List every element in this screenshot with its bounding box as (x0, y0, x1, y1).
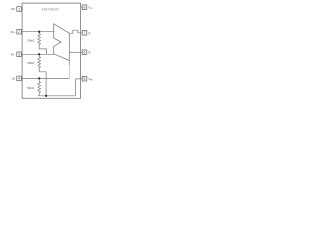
svg-text:Q: Q (88, 31, 91, 35)
svg-text:Q̅: Q̅ (88, 50, 91, 54)
svg-text:IN−: IN− (11, 53, 16, 57)
svg-text:2: 2 (18, 30, 20, 34)
svg-text:7: 7 (84, 31, 86, 35)
svg-text:VEE: VEE (88, 77, 93, 81)
svg-text:50kΩ: 50kΩ (27, 61, 35, 65)
svg-text:4: 4 (18, 77, 20, 81)
svg-text:50kΩ: 50kΩ (27, 39, 35, 43)
svg-text:3: 3 (18, 53, 20, 57)
svg-text:1: 1 (18, 7, 20, 11)
svg-text:LE: LE (12, 77, 16, 81)
svg-text:5: 5 (84, 77, 86, 81)
svg-text:VCC: VCC (88, 5, 93, 9)
svg-text:8: 8 (84, 6, 86, 10)
svg-text:6: 6 (84, 51, 86, 55)
svg-text:NC: NC (11, 7, 15, 11)
svg-text:MAX9690: MAX9690 (41, 6, 59, 11)
svg-text:50kΩ: 50kΩ (27, 86, 35, 90)
svg-text:IN+: IN+ (11, 30, 16, 34)
